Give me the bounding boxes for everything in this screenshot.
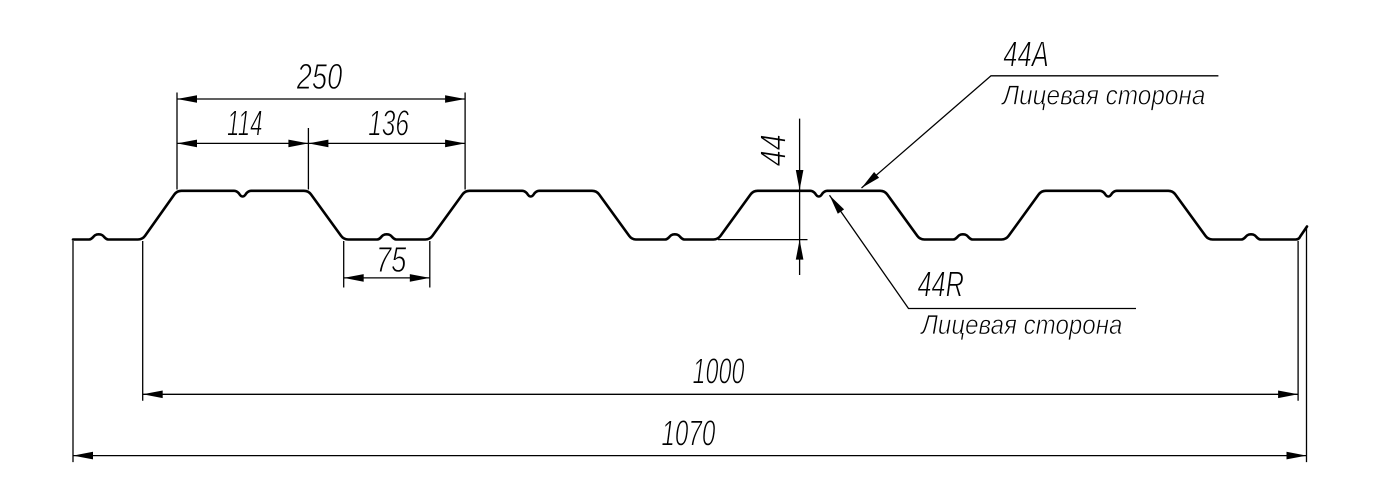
svg-text:1000: 1000 xyxy=(693,351,745,392)
svg-text:Лицевая сторона: Лицевая сторона xyxy=(1001,79,1206,110)
extension line for 1070 right xyxy=(1306,228,1308,463)
leader line 44R pointing to notch xyxy=(830,195,1137,308)
extension line for 1000 right xyxy=(1297,241,1299,401)
svg-text:75: 75 xyxy=(376,239,407,280)
leader line 44A pointing to face side top xyxy=(862,76,1219,188)
extension line for 1070 left xyxy=(72,241,74,462)
dimension 114 xyxy=(177,142,308,144)
svg-text:114: 114 xyxy=(227,103,263,144)
arrow down to flange top xyxy=(796,170,804,190)
extension line at first flange left edge (x=177) xyxy=(176,93,178,190)
extension line for 1000 left xyxy=(142,241,144,401)
extension line valley left (75 dim) xyxy=(343,241,345,288)
svg-text:Лицевая сторона: Лицевая сторона xyxy=(920,309,1123,340)
svg-text:44: 44 xyxy=(753,134,794,166)
arrow of 44A leader xyxy=(862,172,880,188)
profile sheet outline (C-44 corrugated section) xyxy=(73,191,1307,240)
dimension 44 vertical line xyxy=(799,119,801,275)
arrow up to valley level xyxy=(796,240,804,260)
extension line at second flange left edge xyxy=(464,93,466,190)
arrow of 44R leader xyxy=(830,195,845,214)
dimension 250 xyxy=(177,98,465,100)
extension line valley right (75 dim) xyxy=(429,241,431,288)
dimension 1000 xyxy=(143,393,1298,395)
dimension 1070 xyxy=(73,455,1307,457)
dimension 75 xyxy=(344,277,430,279)
extension line between 114 and 136 (flange right edge) xyxy=(307,128,309,190)
svg-text:44R: 44R xyxy=(917,263,964,304)
svg-text:250: 250 xyxy=(296,56,342,97)
svg-text:1070: 1070 xyxy=(661,413,715,454)
dimension 136 xyxy=(308,142,465,144)
svg-text:44A: 44A xyxy=(1003,34,1049,75)
svg-text:136: 136 xyxy=(368,102,409,143)
extension line at valley level for 44 dim xyxy=(718,239,808,241)
